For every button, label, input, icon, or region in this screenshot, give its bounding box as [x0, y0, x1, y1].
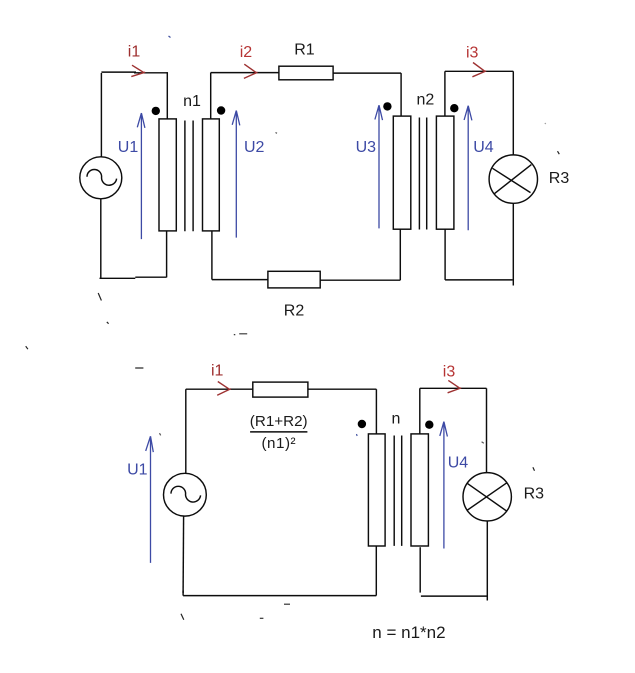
fraction bar — [250, 431, 307, 433]
arrow i3 — [472, 63, 486, 77]
svg-text:i1: i1 — [211, 363, 224, 380]
svg-text:n: n — [392, 411, 401, 428]
wire bottom middle loop right — [320, 279, 400, 281]
arrow U2 — [232, 111, 240, 238]
dot n2 primary — [383, 102, 391, 110]
transformer n1 secondary winding — [203, 119, 220, 231]
dot n primary — [358, 420, 366, 428]
svg-text:U2: U2 — [244, 139, 265, 156]
stray tick near R3 bottom — [533, 467, 535, 470]
wire bottom right loop — [445, 279, 512, 281]
svg-text:n = n1*n2: n = n1*n2 — [372, 623, 445, 642]
stray dash y618 — [260, 617, 264, 619]
wire top middle loop left — [211, 72, 279, 74]
stray tick near U4 bottom — [482, 442, 484, 443]
svg-text:i3: i3 — [466, 44, 479, 61]
wire source bottom lead — [182, 516, 185, 593]
svg-text:U4: U4 — [448, 455, 469, 472]
wire lamp R3 bottom lead — [486, 521, 488, 601]
wire n1 secondary top lead — [210, 73, 212, 119]
arrow i1 bottom — [217, 382, 231, 396]
transformer n primary winding — [368, 434, 385, 546]
wire n secondary top lead — [419, 388, 421, 434]
resistor (R1+R2)/(n1)^2 — [253, 382, 308, 397]
stray tick x107 — [107, 322, 109, 324]
svg-text:i3: i3 — [443, 364, 456, 381]
svg-text:n1: n1 — [183, 93, 201, 110]
wire top middle loop right — [333, 72, 401, 74]
stray dash pair y334 — [234, 334, 247, 335]
wire n1 primary top lead — [166, 72, 168, 119]
wire lamp R3 top lead — [512, 71, 514, 155]
svg-text:U3: U3 — [356, 139, 377, 156]
stray dash y368 — [135, 367, 143, 369]
stray dot near U2 — [276, 132, 278, 135]
lamp R3 top X — [493, 165, 532, 194]
svg-text:U4: U4 — [473, 139, 494, 156]
resistor R2 — [268, 271, 320, 288]
lamp R3 bottom X — [467, 483, 507, 512]
wire source top vertical — [100, 73, 102, 157]
stray blue dot top — [169, 36, 171, 38]
dot n1 secondary — [217, 106, 225, 114]
wire lamp R3 bottom lead — [512, 203, 514, 285]
svg-text:n2: n2 — [417, 92, 435, 109]
arrow i1 — [131, 65, 145, 76]
wire source bottom vertical — [100, 199, 102, 278]
arrow i2 — [244, 64, 258, 78]
wire n2 secondary bottom lead — [444, 229, 446, 280]
stray faint dot x545 y123 — [545, 123, 546, 124]
wire lamp R3 top lead — [486, 388, 488, 472]
wire n2 secondary top lead — [444, 71, 446, 116]
wire top right loop — [445, 70, 513, 72]
svg-text:R3: R3 — [524, 486, 545, 503]
dot n secondary — [425, 421, 433, 429]
wire n1 primary bottom lead — [166, 231, 168, 277]
arrow U3 — [375, 105, 383, 228]
wire n1 secondary bottom lead — [211, 231, 213, 280]
dot n2 secondary — [450, 104, 458, 112]
stray blue tick near n — [356, 434, 359, 436]
dot n1 primary — [152, 107, 160, 115]
svg-text:i1: i1 — [128, 44, 141, 61]
transformer n2 primary winding — [393, 116, 411, 229]
svg-text:R3: R3 — [549, 170, 570, 187]
svg-text:i2: i2 — [240, 44, 253, 61]
wire top left segment — [186, 388, 253, 390]
wire n primary bottom lead — [375, 546, 377, 596]
stray tick near R3 top — [558, 151, 560, 154]
arrow U4 top — [464, 106, 472, 231]
arrow U1 — [137, 113, 145, 239]
arrow U1 bottom — [146, 436, 154, 563]
stray marks — [26, 36, 560, 620]
wire top i3 segment — [420, 387, 487, 389]
lamp R3 top circle — [489, 155, 537, 203]
transformer n2 core — [419, 118, 426, 230]
stray tick x25 y346 — [26, 346, 28, 349]
arrow U4 bottom — [440, 422, 448, 549]
svg-text:U1: U1 — [127, 462, 148, 479]
stray tick y614 — [181, 614, 184, 620]
transformer n1 primary winding — [159, 119, 176, 231]
svg-text:R1: R1 — [294, 42, 315, 59]
wire n primary top lead — [375, 389, 377, 434]
arrow i3 bottom — [448, 380, 462, 392]
resistor R1 — [279, 66, 333, 80]
AC source V1 sine — [87, 169, 117, 185]
AC source V2 circle — [164, 473, 207, 516]
stray tick near i1 resistor — [160, 433, 161, 435]
svg-text:(R1+R2): (R1+R2) — [250, 413, 308, 430]
transformer n1 core — [185, 121, 193, 232]
wire top right of resistor — [308, 388, 377, 390]
wire top left loop — [101, 71, 167, 74]
wire n2 primary top lead — [400, 73, 402, 116]
svg-text:R2: R2 — [284, 302, 305, 319]
wire bottom right loop — [421, 595, 487, 597]
stray tick below source top circuit — [98, 293, 101, 301]
AC source V2 sine — [171, 486, 201, 502]
wire bottom middle loop left — [212, 279, 268, 281]
AC source V1 circle — [80, 157, 122, 199]
wire bottom left loop — [100, 277, 167, 278]
transformer n core — [394, 436, 402, 546]
wire bottom left loop — [183, 591, 376, 596]
svg-text:(n1)²: (n1)² — [262, 435, 297, 452]
svg-text:U1: U1 — [118, 139, 139, 156]
wire n secondary bottom lead — [419, 547, 421, 592]
transformer n2 secondary winding — [436, 116, 454, 229]
stray dash y604 — [284, 603, 290, 605]
wire n2 primary bottom lead — [399, 229, 401, 280]
lamp R3 bottom circle — [463, 473, 511, 521]
wire source top lead — [185, 389, 187, 473]
transformer n secondary winding — [411, 434, 428, 546]
